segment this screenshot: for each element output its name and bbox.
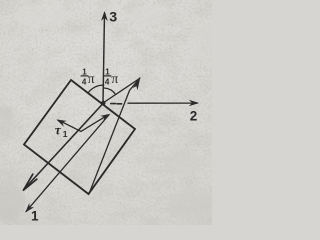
svg-text:2: 2 xyxy=(190,108,198,123)
arrowhead at N on steep line xyxy=(133,77,141,90)
svg-text:1: 1 xyxy=(82,68,87,77)
ghost bleed-through text left margin xyxy=(0,107,10,222)
right quarter-pi label xyxy=(104,68,119,87)
steep line N to B xyxy=(90,78,140,193)
long double arrow line labelled 1 xyxy=(26,115,109,212)
label-1 line bottom arrowhead xyxy=(25,203,34,213)
right angle arc xyxy=(104,88,115,94)
svg-text:4: 4 xyxy=(82,78,87,87)
second shear arrow shaft xyxy=(81,116,107,132)
axis 2 arrowhead xyxy=(189,100,200,107)
svg-text:4: 4 xyxy=(105,78,110,87)
svg-text:eb: eb xyxy=(0,188,4,195)
svg-text:ha: ha xyxy=(0,197,5,204)
svg-text:nde: nde xyxy=(104,218,116,225)
origin node dot xyxy=(101,101,106,106)
tau1 arrow shaft xyxy=(59,120,82,131)
axis 1 open arrowhead xyxy=(23,174,36,190)
svg-text:sdembi celd: sdembi celd xyxy=(134,181,171,188)
svg-text:bsm: bsm xyxy=(0,170,8,177)
scanned paper background xyxy=(0,0,212,225)
svg-text:π: π xyxy=(88,71,95,86)
svg-text:bmse cdlm: bmse cdlm xyxy=(142,194,176,201)
svg-text:1: 1 xyxy=(31,208,39,223)
svg-text:1: 1 xyxy=(105,68,110,77)
axis 2 dash 1 xyxy=(111,103,116,105)
left angle arc xyxy=(89,85,104,92)
axis 2 dash 2 xyxy=(117,103,122,105)
svg-text:re: re xyxy=(0,126,4,133)
svg-text:edsmb lcmde: edsmb lcmde xyxy=(130,207,172,214)
axis 1 line from origin xyxy=(24,104,103,190)
ghost bleed-through text right/bottom region xyxy=(104,130,180,225)
diagram ink xyxy=(23,9,199,223)
axis 3 arrowhead xyxy=(101,11,108,21)
svg-text:iedsnu: iedsnu xyxy=(148,130,169,137)
svg-text:tm: tm xyxy=(0,215,5,222)
label-1 line top arrowhead xyxy=(100,114,110,121)
square plane: corners T(71,80) R(135,129) B(88.5,194) L(24,144.5) xyxy=(24,80,135,194)
svg-text:den: den xyxy=(0,206,8,213)
tau1 arrowhead xyxy=(56,120,66,127)
svg-text:mbesd cel: mbesd cel xyxy=(140,217,172,224)
svg-text:bnecm sd: bnecm sd xyxy=(150,143,180,150)
svg-text:ecnlm dse: ecnlm dse xyxy=(146,168,178,175)
svg-text:lane: lane xyxy=(0,179,10,186)
svg-text:τ: τ xyxy=(55,122,62,137)
plane normal line O to N xyxy=(103,79,140,104)
left quarter-pi label xyxy=(81,68,95,87)
svg-text:tni: tni xyxy=(0,161,5,168)
axis 3 line xyxy=(103,13,105,103)
svg-text:π: π xyxy=(111,71,118,86)
svg-text:1: 1 xyxy=(63,129,68,139)
svg-text:mirb celmde: mirb celmde xyxy=(138,156,176,163)
axis 2 solid part xyxy=(128,102,197,104)
svg-text:mu: mu xyxy=(0,152,6,159)
svg-text:3: 3 xyxy=(109,9,117,25)
paper mottling blobs xyxy=(0,4,216,223)
